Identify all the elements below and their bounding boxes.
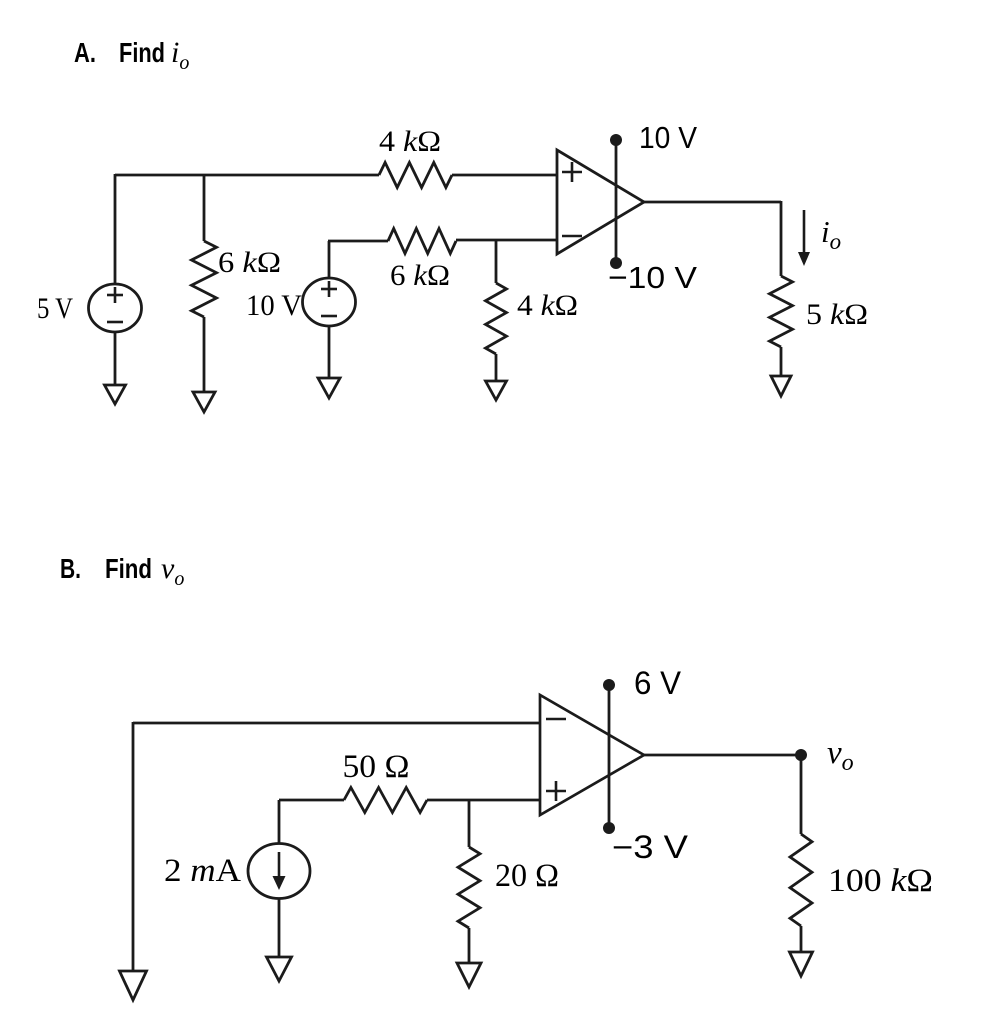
svg-text:2 mA: 2 mA <box>164 853 241 889</box>
svg-text:6 kΩ: 6 kΩ <box>390 259 450 292</box>
svg-text:−3 V: −3 V <box>612 829 689 865</box>
svg-text:6 V: 6 V <box>634 665 682 701</box>
svg-text:5 kΩ: 5 kΩ <box>806 298 868 331</box>
svg-text:A.: A. <box>74 37 96 68</box>
svg-text:B.: B. <box>60 553 81 584</box>
svg-text:−10 V: −10 V <box>608 260 697 295</box>
svg-text:50 Ω: 50 Ω <box>343 749 410 785</box>
svg-text:4 kΩ: 4 kΩ <box>517 289 578 322</box>
svg-text:6 kΩ: 6 kΩ <box>218 246 281 279</box>
svg-text:4 kΩ: 4 kΩ <box>379 125 441 158</box>
svg-text:20 Ω: 20 Ω <box>495 858 559 894</box>
svg-text:5 V: 5 V <box>37 292 73 325</box>
svg-text:10 V: 10 V <box>246 289 302 322</box>
svg-text:100 kΩ: 100 kΩ <box>828 863 933 899</box>
svg-text:10 V: 10 V <box>639 120 697 155</box>
svg-text:Find: Find <box>105 553 152 584</box>
svg-text:Find: Find <box>119 37 165 68</box>
